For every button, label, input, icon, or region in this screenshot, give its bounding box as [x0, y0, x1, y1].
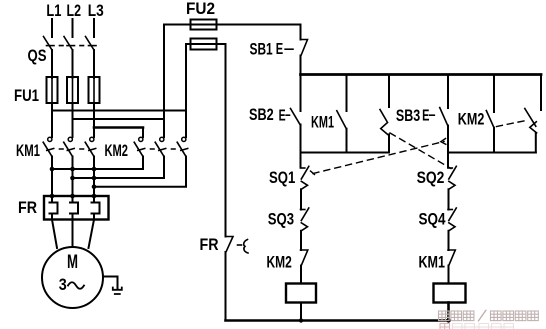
contactor KM2 aux NO upper wire: [493, 76, 495, 112]
wire QS to FU1 pole3: [93, 50, 95, 78]
switch QS pole 1: [44, 37, 55, 51]
wire SQ1 to SQ3: [300, 189, 302, 209]
junction dot coil KM2 / rail end: [446, 318, 450, 322]
FR heater element 2: [70, 196, 78, 220]
limit switch SQ2 NO upper wire: [388, 76, 390, 107]
wire L2 drop to QS: [72, 19, 74, 37]
wire KM2 c1 column from L3: [142, 128, 144, 138]
node L1 feeder to KM2/FU2: [52, 110, 186, 112]
wire left sub-bus: [301, 152, 390, 154]
wire KM1 aux to left sub-bus: [346, 129, 348, 153]
limit switch SQ2 NC contact: [448, 166, 456, 189]
coil KM2: [434, 284, 466, 303]
wire KM2 NC to coil KM1: [300, 266, 302, 284]
KM1 linkage dashes: [60, 148, 84, 150]
svg-text:KM2: KM2: [458, 111, 485, 129]
svg-text:M: M: [67, 252, 78, 273]
svg-text:L2: L2: [67, 2, 82, 20]
wire FR to motor 3: [89, 220, 95, 249]
motor 3-phase label: [59, 276, 84, 294]
limit switch SQ2 label: [417, 169, 445, 187]
wire left column to SQ1: [300, 153, 302, 168]
fuse FU1 element 1: [47, 77, 58, 103]
contactor KM2 main contact 3: [177, 137, 188, 156]
fuse FU2 element 2: [191, 39, 217, 50]
wire SQ4 to KM1 NC: [448, 231, 450, 250]
SB2 actuator E: [279, 107, 290, 124]
wire fuse FU2 lower run: [186, 43, 226, 45]
wire FR to motor 2: [72, 220, 74, 248]
contactor KM2 main contact 1: [134, 137, 145, 156]
svg-text:SB2: SB2: [249, 106, 274, 124]
pushbutton SB3 label: [396, 107, 420, 125]
limit switch SQ4 label: [419, 211, 447, 229]
svg-text:SB3: SB3: [396, 107, 420, 125]
mechanical linkage dash SQ2 to forward branch: [390, 133, 451, 169]
fuse FU2 label: [186, 0, 215, 18]
svg-text:L1: L1: [46, 2, 61, 20]
switch QS pole 3: [86, 37, 97, 51]
wire KM2 aux to right sub-bus: [493, 128, 495, 153]
contactor KM1 main contact 2: [64, 137, 74, 156]
node L3 feeder to KM2: [94, 126, 143, 129]
contactor KM1 label: [16, 142, 40, 160]
svg-text:FU1: FU1: [14, 87, 39, 105]
switch QS label: [28, 47, 47, 65]
wire FU1 to KM1 pole3: [93, 103, 95, 137]
contactor KM1 main contact 1: [43, 137, 54, 156]
wire SB2 to left sub-bus: [300, 125, 302, 153]
wire KM1 out 3 down: [93, 157, 95, 197]
svg-text:3: 3: [59, 276, 67, 294]
contactor KM1 main contact 3: [85, 137, 96, 156]
node L2 label: [67, 2, 82, 20]
wire coil KM1 to bottom rail: [300, 303, 302, 321]
wire SB1 to bus: [300, 56, 302, 74]
FR NC label: [200, 236, 219, 254]
limit switch SQ1 label: [269, 169, 295, 187]
svg-text:SB1: SB1: [250, 41, 273, 59]
junction dots at FR box top: [50, 194, 97, 199]
fuse FU1 element 2: [67, 77, 78, 103]
wire coil KM2 to bottom rail: [447, 303, 450, 321]
coil KM1: [286, 284, 316, 303]
svg-text:KM1: KM1: [419, 254, 446, 272]
thermal relay FR label: [18, 199, 37, 217]
wire SB3 to right sub-bus: [447, 126, 449, 153]
pushbutton SB1 upper wire: [300, 25, 302, 40]
wire FU1 to KM1 pole1: [51, 103, 53, 137]
pushbutton SB1 NC contact: [301, 40, 308, 56]
node L1 label: [46, 2, 61, 20]
wire fuse FU2 upper run: [164, 24, 301, 26]
wire L1 drop to QS: [51, 19, 53, 37]
QS linkage dashes: [60, 45, 84, 47]
pushbutton SB3 NO contact: [440, 108, 448, 126]
switch QS pole 2: [64, 37, 75, 51]
wire FU2 branch from L2 up (c2 column): [163, 25, 165, 138]
fuse FU2 element 1: [191, 20, 217, 30]
pushbutton SB3 upper wire: [447, 76, 449, 108]
svg-text:E: E: [276, 41, 284, 58]
wire SQ2 to SQ4: [448, 189, 450, 209]
ground wire from motor: [103, 277, 118, 290]
contactor KM2 aux NO contact: [486, 111, 494, 128]
watermark line 1: [439, 310, 539, 320]
wire left rail to bottom: [225, 252, 227, 320]
limit switch SQ2 NO contact: [380, 110, 388, 135]
FR heater element 3: [92, 196, 100, 220]
mechanical linkage dash SQ1 to reverse branch: [311, 139, 446, 175]
svg-text:KM2: KM2: [105, 142, 129, 160]
thermal relay FR NC contact: [226, 237, 249, 254]
mechanical linkage dash KM2/SQ1-NO: [497, 120, 529, 127]
node L2 feeder to KM2/FU2: [73, 118, 165, 120]
wire KM1 out 1 down: [51, 157, 53, 197]
fuse FU1 label: [14, 87, 39, 105]
wire right sub-bus: [448, 152, 536, 154]
svg-text:L3: L3: [88, 2, 104, 20]
SB3 actuator E: [422, 108, 434, 125]
contactor KM2 NC interlock contact: [301, 250, 308, 266]
ground symbol: [113, 288, 122, 295]
svg-text:KM2: KM2: [267, 254, 292, 272]
pushbutton SB2 label: [249, 106, 274, 124]
pushbutton SB2 upper wire: [300, 76, 302, 111]
wire SQ1 NO to right sub-bus: [535, 133, 537, 153]
wire bottom rail: [226, 319, 450, 322]
wire merge phase1 to KM2 c1: [52, 157, 143, 170]
pushbutton SB1 label: [250, 41, 273, 59]
wire L3 drop to QS: [93, 19, 95, 37]
svg-text:SQ1: SQ1: [269, 169, 295, 187]
limit switch SQ4 NC contact: [448, 208, 456, 231]
motor M label: [67, 252, 78, 273]
contactor KM1 aux label: [311, 114, 334, 132]
wire KM1 NC to coil KM2: [448, 266, 450, 284]
svg-text:E: E: [279, 107, 286, 124]
KM2 NC label: [267, 254, 292, 272]
fuse FU1 element 3: [89, 77, 100, 103]
limit switch SQ1 NC contact: [301, 166, 309, 189]
svg-text:KM1: KM1: [16, 142, 40, 160]
wire FU2 branch from L1 up (c3 column): [185, 44, 187, 137]
svg-text:E: E: [422, 108, 430, 125]
limit switch SQ1 NO upper wire (bus right corner): [540, 75, 542, 111]
wire KM1 out 2 down: [72, 157, 74, 197]
node L3 label: [88, 2, 104, 20]
svg-text:SQ3: SQ3: [268, 211, 294, 229]
limit switch SQ3 label: [268, 211, 294, 229]
limit switch SQ3 NC contact: [301, 208, 309, 231]
wire left rail down from FU2: [225, 44, 227, 237]
junction dots on merge wires: [50, 167, 97, 189]
wire QS to FU1 pole2: [72, 50, 74, 78]
wire SQ3 to KM2 NC: [300, 231, 302, 250]
svg-text:SQ4: SQ4: [419, 211, 447, 229]
KM1 NC label: [419, 254, 446, 272]
contactor KM2 main contact 2: [155, 137, 166, 156]
wire SQ2 NO to left sub-bus: [388, 135, 390, 153]
wire merge phase2 to KM2 c2: [73, 157, 165, 179]
wire FU1 to KM1 pole2: [72, 103, 74, 137]
svg-text:FR: FR: [18, 199, 37, 217]
svg-text:FU2: FU2: [186, 0, 215, 18]
wire merge phase3 to KM2 c3: [94, 157, 186, 187]
wire FR to motor 1: [52, 220, 57, 249]
motor M circle: [42, 247, 103, 308]
contactor KM1 aux NO upper wire: [346, 76, 348, 111]
svg-text:KM1: KM1: [311, 114, 334, 132]
FR heater element 1: [50, 196, 58, 220]
contactor KM1 aux NO contact: [337, 111, 347, 129]
thermal relay FR box: [44, 196, 109, 220]
contactor KM2 aux label: [458, 111, 485, 129]
watermark line 2 (clipped): [440, 324, 514, 329]
contactor KM2 label: [105, 142, 129, 160]
junction dot coil KM1 / rail: [299, 318, 303, 322]
wire control bus: [301, 73, 542, 76]
svg-text:QS: QS: [28, 47, 47, 65]
svg-text:FR: FR: [200, 236, 219, 254]
contactor KM1 NC interlock contact: [448, 250, 455, 266]
limit switch SQ1 NO contact: [525, 109, 537, 133]
pushbutton SB2 NO contact: [291, 109, 301, 126]
svg-text:SQ2: SQ2: [417, 169, 445, 187]
wire right column to SQ2: [447, 153, 449, 168]
wire QS to FU1 pole1: [51, 50, 53, 78]
SB1 actuator E: [276, 41, 293, 58]
KM2 linkage dashes: [151, 148, 176, 150]
